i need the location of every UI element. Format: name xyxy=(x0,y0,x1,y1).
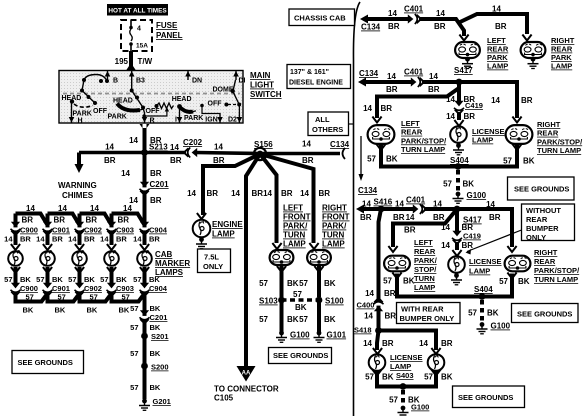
svg-text:BK: BK xyxy=(55,306,66,315)
svg-text:BR: BR xyxy=(428,85,440,94)
svg-text:C900: C900 xyxy=(20,226,38,235)
svg-text:BR: BR xyxy=(384,289,396,298)
wire S156 to left front lamp xyxy=(260,154,277,243)
svg-text:BR: BR xyxy=(54,216,66,225)
svg-text:SEE GROUNDS: SEE GROUNDS xyxy=(18,358,73,367)
splice S200 xyxy=(141,363,148,370)
svg-text:LAMP: LAMP xyxy=(469,267,490,276)
svg-text:C201: C201 xyxy=(150,313,168,322)
ground G100 row2 xyxy=(453,192,464,204)
wire head contact to H xyxy=(71,103,73,113)
wire marker lamp 1 feed xyxy=(14,214,18,246)
connector at right front park/turn lamp xyxy=(309,243,318,249)
dome contacts xyxy=(233,80,236,91)
splice S201 xyxy=(141,333,148,340)
svg-text:57: 57 xyxy=(367,155,376,164)
svg-text:BR: BR xyxy=(386,85,398,94)
connector C419 row3 xyxy=(452,231,462,244)
svg-text:C904: C904 xyxy=(149,284,168,293)
connector C400 xyxy=(374,298,384,311)
svg-text:BK: BK xyxy=(52,275,63,284)
svg-text:57: 57 xyxy=(468,309,477,318)
svg-text:14: 14 xyxy=(123,204,132,213)
svg-text:WITHOUT: WITHOUT xyxy=(526,206,561,215)
svg-text:BR: BR xyxy=(118,216,130,225)
splice S416 xyxy=(378,206,385,213)
wire row3 left xyxy=(363,207,381,211)
svg-text:TURN LAMP: TURN LAMP xyxy=(534,275,578,284)
box WITHOUT REAR BUMPER ONLY xyxy=(522,204,575,241)
svg-text:BK: BK xyxy=(463,180,475,189)
svg-text:PARK: PARK xyxy=(73,111,92,118)
svg-text:57: 57 xyxy=(499,277,508,286)
wire R output 14 BR xyxy=(143,128,147,152)
switch wiper 1 xyxy=(74,104,93,107)
svg-text:LIGHT: LIGHT xyxy=(250,81,274,90)
svg-text:C134: C134 xyxy=(358,186,378,195)
wire to IGN terminal xyxy=(200,104,204,108)
wire S213 to C202 xyxy=(145,151,187,155)
svg-text:57: 57 xyxy=(443,180,452,189)
svg-text:14: 14 xyxy=(300,189,309,198)
svg-text:4: 4 xyxy=(137,26,141,33)
wire C134 continuation arrow xyxy=(360,136,362,176)
svg-text:BK: BK xyxy=(150,349,161,358)
connector at license lamp row2 xyxy=(454,120,463,126)
svg-text:14: 14 xyxy=(90,204,99,213)
svg-text:BK: BK xyxy=(150,383,161,392)
lamp right rear park/stop/turn lamp (all others) xyxy=(505,256,531,272)
svg-text:S403: S403 xyxy=(396,371,414,380)
svg-text:DN: DN xyxy=(192,78,202,85)
connector at left rear lamp row3 xyxy=(388,246,397,252)
svg-text:SEE GROUNDS: SEE GROUNDS xyxy=(517,310,572,319)
lamp cab marker lamp 4 xyxy=(104,251,119,266)
svg-text:15A: 15A xyxy=(136,43,148,50)
svg-text:57: 57 xyxy=(58,293,66,302)
splice S156 xyxy=(257,151,264,158)
svg-text:BUMPER ONLY: BUMPER ONLY xyxy=(400,314,455,323)
connector at marker lamp 4 ground xyxy=(107,267,116,273)
svg-text:14: 14 xyxy=(214,143,223,152)
svg-text:OFF: OFF xyxy=(93,108,108,115)
connector at right license ground xyxy=(431,370,440,376)
svg-text:BR: BR xyxy=(213,156,225,165)
svg-text:BR: BR xyxy=(319,189,331,198)
splice S100 xyxy=(316,297,323,304)
rheostat tap arrow xyxy=(144,111,167,116)
fuse panel dashed box xyxy=(121,20,152,51)
svg-text:S103: S103 xyxy=(259,297,278,306)
wire marker bus 4 xyxy=(112,214,145,226)
switch section 2 contacts xyxy=(131,80,133,91)
svg-text:S200: S200 xyxy=(151,363,169,372)
svg-text:R: R xyxy=(150,118,155,125)
svg-text:BR: BR xyxy=(464,112,476,121)
svg-text:14: 14 xyxy=(436,9,445,18)
svg-text:BR: BR xyxy=(22,216,34,225)
wire row1 left xyxy=(367,17,411,21)
wire S418 to left license lamp xyxy=(377,331,379,351)
connector C202 xyxy=(184,148,197,158)
svg-text:LAMP: LAMP xyxy=(322,240,345,249)
connector at right rear lamp row3 ground xyxy=(507,273,516,279)
svg-text:14: 14 xyxy=(441,241,450,250)
svg-text:BK: BK xyxy=(518,277,530,286)
svg-text:LAMPS: LAMPS xyxy=(155,268,184,277)
svg-text:BR: BR xyxy=(281,189,293,198)
svg-text:ALL: ALL xyxy=(315,115,330,124)
svg-text:14: 14 xyxy=(406,213,415,222)
svg-text:BR: BR xyxy=(20,235,31,244)
svg-text:C903: C903 xyxy=(116,226,134,235)
wire off2 to R xyxy=(143,108,145,114)
svg-text:14: 14 xyxy=(26,204,35,213)
svg-text:LAMP: LAMP xyxy=(551,62,572,71)
wire left front lamp ground xyxy=(280,266,284,297)
svg-text:LAMP: LAMP xyxy=(283,240,306,249)
wire dashes S404 row3 to G100 xyxy=(480,300,484,322)
svg-text:BK: BK xyxy=(84,275,95,284)
connector at left rear park lamp xyxy=(459,35,468,41)
wire marker ground bus 4 xyxy=(112,293,145,302)
switch wiper 2 xyxy=(117,104,140,111)
svg-text:BR: BR xyxy=(52,235,63,244)
wire marker lamp 1 ground xyxy=(14,267,18,284)
ground license lamp row3 ground xyxy=(451,273,462,285)
connector at marker lamp 5 ground xyxy=(140,267,149,273)
svg-text:57: 57 xyxy=(130,304,138,313)
svg-text:CHIMES: CHIMES xyxy=(62,191,94,200)
svg-text:LAMP: LAMP xyxy=(390,362,411,371)
lamp license lamp (all others) xyxy=(448,256,465,273)
svg-text:WARNING: WARNING xyxy=(58,181,97,190)
wire C202 to S156 xyxy=(196,153,260,154)
wire S416 down to S418 xyxy=(379,209,382,331)
svg-text:G100: G100 xyxy=(491,322,511,331)
connector at right license lamp xyxy=(431,348,440,354)
svg-text:REAR: REAR xyxy=(401,128,423,137)
wire S417 to right rear lamp row3 xyxy=(457,209,512,247)
box ALL OTHERS xyxy=(308,112,349,136)
svg-text:57: 57 xyxy=(90,293,98,302)
wire right rear lamp to S404 xyxy=(458,145,517,167)
svg-text:14: 14 xyxy=(419,339,428,348)
connector at engine lamp xyxy=(197,213,206,219)
svg-text:14: 14 xyxy=(68,235,77,244)
svg-text:BK: BK xyxy=(119,306,130,315)
svg-text:SEE GROUNDS: SEE GROUNDS xyxy=(273,351,328,360)
svg-text:14: 14 xyxy=(4,235,13,244)
terminal R xyxy=(144,113,146,123)
wire to I terminal xyxy=(179,107,181,113)
svg-text:BR: BR xyxy=(433,213,445,222)
svg-text:57: 57 xyxy=(100,275,108,284)
svg-text:57: 57 xyxy=(133,275,141,284)
svg-text:14: 14 xyxy=(105,143,114,152)
wire marker lamp 5 ground xyxy=(143,267,147,284)
svg-text:BK: BK xyxy=(523,157,535,166)
connector at left license ground xyxy=(372,370,381,376)
wire marker lamp 2 ground xyxy=(46,267,50,284)
connector C401 xyxy=(408,14,421,24)
svg-text:14: 14 xyxy=(364,312,373,321)
svg-text:BK: BK xyxy=(386,155,398,164)
svg-text:14: 14 xyxy=(170,143,179,152)
section divider brace xyxy=(353,2,360,416)
svg-text:BR: BR xyxy=(252,189,264,198)
svg-text:PARK/STOP/: PARK/STOP/ xyxy=(401,136,447,145)
terminal B3 xyxy=(131,71,133,80)
wire dashes S201-S200 xyxy=(143,339,147,363)
svg-text:B3: B3 xyxy=(136,78,145,85)
wire C401 to S417 row3 xyxy=(424,207,457,211)
svg-text:BR: BR xyxy=(495,22,507,31)
splice S404 xyxy=(455,163,462,170)
lamp cab marker lamp 5 xyxy=(137,251,152,266)
svg-text:C902: C902 xyxy=(84,226,102,235)
box WITH REAR BUMPER ONLY xyxy=(397,303,461,324)
svg-text:BK: BK xyxy=(287,315,299,324)
wire C419 to license lamp xyxy=(457,112,461,120)
connector at right rear lamp row3 xyxy=(507,246,516,252)
connector at left front park/turn lamp xyxy=(272,243,281,249)
ground left rear park lamp ground xyxy=(462,57,473,69)
svg-text:OTHERS: OTHERS xyxy=(312,125,343,134)
svg-text:BK: BK xyxy=(150,304,161,313)
svg-text:S213: S213 xyxy=(149,143,168,152)
svg-text:G100: G100 xyxy=(290,331,310,340)
wire 14 BR down to markers xyxy=(143,152,147,214)
svg-text:FRONT: FRONT xyxy=(322,213,350,222)
svg-text:BK: BK xyxy=(20,275,31,284)
lamp left front park/turn lamp xyxy=(270,250,294,265)
svg-text:TO CONNECTOR: TO CONNECTOR xyxy=(214,385,279,394)
wire warning chimes feed xyxy=(77,153,81,166)
svg-text:TURN: TURN xyxy=(283,231,305,240)
svg-text:PARK: PARK xyxy=(184,115,203,122)
svg-text:S417: S417 xyxy=(454,66,473,75)
wire marker bus 1 xyxy=(16,214,48,226)
svg-text:C134: C134 xyxy=(359,69,379,78)
lamp cab marker lamp 1 xyxy=(8,251,23,266)
svg-text:BK: BK xyxy=(382,373,394,382)
wire S156 to connector C105 xyxy=(246,154,260,366)
svg-text:BK: BK xyxy=(87,306,98,315)
connector at marker lamp 2 xyxy=(43,244,52,250)
arrow to connector C105 xyxy=(237,366,256,382)
box CHASSIS CAB xyxy=(289,9,355,26)
svg-text:S404: S404 xyxy=(474,285,493,294)
wire marker lamp 5 feed xyxy=(143,214,147,246)
svg-text:57: 57 xyxy=(383,277,392,286)
ring around S156 xyxy=(254,148,266,160)
svg-text:H: H xyxy=(78,118,83,125)
svg-text:BR: BR xyxy=(388,22,400,31)
svg-text:BR: BR xyxy=(150,196,162,205)
box SEE GROUNDS row2 xyxy=(508,177,575,200)
svg-text:TURN: TURN xyxy=(414,274,435,283)
svg-text:BUMPER: BUMPER xyxy=(526,224,559,233)
svg-text:PARK/: PARK/ xyxy=(414,256,438,265)
wire marker lamp 2 feed xyxy=(46,214,50,246)
splice S404 row3 xyxy=(479,293,486,300)
switch wiper 3 xyxy=(177,104,182,109)
svg-text:PARK/: PARK/ xyxy=(283,222,308,231)
wire marker ground trunk xyxy=(143,293,147,399)
splice S417 row3 xyxy=(454,206,461,213)
svg-text:G100: G100 xyxy=(467,191,487,200)
splice S417 xyxy=(456,79,463,86)
wire row1 to right rear park lamp xyxy=(459,14,527,34)
connector C903 xyxy=(107,283,117,296)
svg-text:ENGINE: ENGINE xyxy=(212,220,243,229)
switch linkage dashed line xyxy=(63,93,240,95)
connector at left rear park/stop/turn lamp xyxy=(372,117,381,123)
svg-text:C401: C401 xyxy=(404,5,424,14)
svg-text:BK: BK xyxy=(403,277,415,286)
wire marker lamp 3 ground xyxy=(78,267,82,284)
svg-text:LEFT: LEFT xyxy=(283,204,303,213)
svg-text:BR: BR xyxy=(489,213,501,222)
box SEE GROUNDS left xyxy=(12,351,84,374)
svg-text:57: 57 xyxy=(36,275,44,284)
lamp license lamp left (with bumper) xyxy=(369,354,386,371)
svg-text:14: 14 xyxy=(395,200,404,209)
svg-text:PARK/STOP/: PARK/STOP/ xyxy=(534,266,580,275)
svg-text:BR: BR xyxy=(116,235,127,244)
lamp left rear park/stop/turn lamp xyxy=(368,125,395,144)
svg-text:14: 14 xyxy=(302,140,311,149)
wire marker lamp 4 feed xyxy=(110,214,114,246)
svg-text:LAMP: LAMP xyxy=(212,230,235,239)
terminal DI xyxy=(235,71,237,80)
svg-text:DIESEL ENGINE: DIESEL ENGINE xyxy=(289,80,343,87)
box HOT AT ALL TIMES xyxy=(107,4,168,16)
svg-text:BR: BR xyxy=(385,312,397,321)
wire S417 to left rear lamp xyxy=(377,82,459,118)
svg-text:D2: D2 xyxy=(228,117,237,124)
lamp license lamp xyxy=(450,126,467,143)
svg-text:14: 14 xyxy=(129,136,138,145)
lamp right rear park/stop/turn lamp xyxy=(506,125,533,144)
svg-text:IGN: IGN xyxy=(205,117,217,124)
connector at left front ground xyxy=(277,266,286,272)
svg-text:C105: C105 xyxy=(214,394,234,403)
svg-text:S100: S100 xyxy=(325,297,344,306)
svg-text:BR: BR xyxy=(150,169,162,178)
svg-text:TURN LAMP: TURN LAMP xyxy=(401,145,445,154)
wire marker bus 3 xyxy=(80,214,112,226)
lamp right front park/turn lamp xyxy=(307,250,331,265)
svg-text:C134: C134 xyxy=(330,140,350,149)
wire S416 to C401 xyxy=(381,207,413,211)
box SEE GROUNDS bottom xyxy=(453,386,525,408)
svg-text:57: 57 xyxy=(503,157,512,166)
svg-text:14: 14 xyxy=(363,339,372,348)
svg-text:14: 14 xyxy=(362,200,371,209)
wire C419 to license lamp row3 xyxy=(455,242,459,250)
svg-text:14: 14 xyxy=(36,235,45,244)
svg-text:B: B xyxy=(113,78,118,85)
svg-text:57: 57 xyxy=(26,293,34,302)
wire marker bus 2 xyxy=(48,214,80,226)
svg-text:7.5L: 7.5L xyxy=(204,253,219,262)
wire S417 to left rear lamp row3 xyxy=(393,209,457,247)
resistor in switch (panel dimmer rheostat) xyxy=(155,104,159,108)
svg-text:PARK/: PARK/ xyxy=(322,222,347,231)
wire S417 to C419 xyxy=(457,82,461,101)
svg-text:BK: BK xyxy=(23,306,34,315)
connector at marker lamp 3 xyxy=(75,244,84,250)
svg-text:BR: BR xyxy=(207,189,219,198)
lamp cab marker lamp 2 xyxy=(40,251,55,266)
svg-text:RIGHT: RIGHT xyxy=(537,120,561,129)
svg-text:14: 14 xyxy=(387,72,396,81)
connector C901 xyxy=(43,283,53,296)
terminal IGN xyxy=(219,113,221,123)
svg-text:FUSE: FUSE xyxy=(156,21,178,30)
wire marker lamp 4 ground xyxy=(110,267,114,284)
wire S103 to S100 xyxy=(282,298,320,301)
wire row2 left xyxy=(365,80,414,84)
svg-text:57: 57 xyxy=(259,315,268,324)
svg-text:14: 14 xyxy=(100,235,109,244)
splice S418 xyxy=(375,327,382,334)
svg-text:14: 14 xyxy=(388,9,397,18)
svg-text:C134: C134 xyxy=(361,23,381,32)
svg-text:HEAD: HEAD xyxy=(62,95,82,102)
lamp left rear park/stop/turn lamp (all others) xyxy=(384,256,410,272)
svg-text:BR: BR xyxy=(462,241,474,250)
ground G100 xyxy=(276,331,287,343)
wire S418 to right license lamp xyxy=(379,331,437,351)
connector at right rear park lamp xyxy=(522,35,531,41)
svg-text:MARKER: MARKER xyxy=(155,259,190,268)
svg-text:HEAD: HEAD xyxy=(172,96,192,103)
svg-text:SEE GROUNDS: SEE GROUNDS xyxy=(514,185,569,194)
box 7.5L ONLY xyxy=(198,249,231,273)
wire marker ground bus 1 xyxy=(16,293,48,302)
svg-text:G201: G201 xyxy=(153,397,171,406)
connector C904 xyxy=(140,222,150,235)
connector at marker lamp 2 ground xyxy=(43,267,52,273)
svg-text:C904: C904 xyxy=(149,226,168,235)
connector C401 xyxy=(411,77,424,87)
svg-text:BR: BR xyxy=(521,96,533,105)
svg-text:STOP/: STOP/ xyxy=(414,265,437,274)
svg-text:BR: BR xyxy=(302,156,314,165)
svg-text:PANEL: PANEL xyxy=(156,31,183,40)
connector C902 xyxy=(75,283,85,296)
svg-text:BR: BR xyxy=(86,216,98,225)
svg-text:BR: BR xyxy=(393,213,405,222)
svg-text:BR: BR xyxy=(104,156,116,165)
lamp left rear park lamp xyxy=(455,42,480,58)
svg-text:BK: BK xyxy=(441,373,453,382)
wire right front lamp ground xyxy=(317,266,321,297)
svg-text:HOT AT ALL TIMES: HOT AT ALL TIMES xyxy=(108,8,167,15)
svg-text:14: 14 xyxy=(231,189,240,198)
svg-text:S418: S418 xyxy=(354,326,372,335)
lamp right rear park lamp xyxy=(521,42,546,58)
connector C134 half xyxy=(343,148,346,159)
wire S417 to C419 row3 xyxy=(455,209,459,231)
svg-text:LEFT: LEFT xyxy=(401,119,420,128)
wire flare into switch xyxy=(126,63,136,71)
wire right rear lamp row3 to S404 xyxy=(482,274,512,297)
wire S156 to engine lamp xyxy=(203,154,260,215)
